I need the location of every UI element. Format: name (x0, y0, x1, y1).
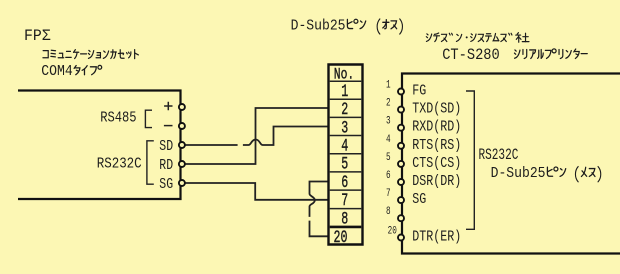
printer pin 7 circle (398, 197, 404, 203)
printer pin 8 circle (398, 215, 404, 221)
svg-text:RXD(RD): RXD(RD) (412, 119, 461, 136)
label RS232C (left) (97, 157, 142, 173)
svg-text:TXD(SD): TXD(SD) (412, 100, 461, 117)
svg-text:FG: FG (412, 82, 426, 99)
label D-Sub25pin female (D-Sub25 + katakana pi-n + (me-su)) (491, 165, 601, 182)
svg-text:4: 4 (341, 138, 348, 157)
printer signal label TXD(SD) (412, 100, 461, 117)
printer signal label RXD(RD) (412, 119, 461, 136)
svg-text:COM4: COM4 (41, 63, 72, 80)
terminal SG (circle) (179, 180, 185, 186)
label minus terminal (164, 125, 173, 127)
svg-text:5: 5 (341, 156, 348, 175)
terminal RD (circle) (179, 161, 185, 167)
svg-text:2: 2 (341, 101, 348, 120)
printer pin number 5 (386, 151, 391, 164)
printer signal label RTS(RS) (412, 137, 461, 154)
printer pin number 4 (386, 133, 391, 146)
jumper wire pin6 to pin20 (hop over SG wire, small break) (310, 182, 329, 237)
svg-text:1: 1 (386, 78, 391, 91)
printer pin 6 circle (398, 179, 404, 185)
label plus terminal (164, 102, 172, 110)
svg-text:4: 4 (386, 133, 391, 146)
printer signal label DSR(DR) (412, 173, 461, 190)
printer signal label SG (412, 191, 426, 208)
svg-text:No.: No. (334, 66, 354, 84)
device box FPSigma PLC (left, open-left rectangle) (18, 91, 181, 200)
printer signal label FG (412, 82, 426, 99)
label communication cassette (katakana ko-myu-ni-ke--syo-n-ka-se-t-to) (43, 50, 138, 59)
printer pin 4 circle (398, 143, 404, 149)
printer pin 20 circle (398, 235, 404, 241)
label D-Sub25pin male header (D-Sub25 + katakana pi-n + (o-su)) (291, 18, 403, 35)
svg-text:3: 3 (341, 120, 348, 139)
table pin number 4 (341, 138, 348, 157)
label RD (159, 157, 173, 174)
svg-text:7: 7 (341, 192, 348, 211)
svg-text:CTS(CS): CTS(CS) (412, 155, 461, 172)
label SG (159, 176, 173, 193)
table pin number 20 (334, 229, 348, 248)
wire SG to pin7 (185, 183, 328, 200)
svg-text:20: 20 (388, 224, 397, 237)
printer pin number 2 (386, 96, 391, 109)
printer pin number 7 (386, 187, 391, 200)
svg-text:DTR(ER): DTR(ER) (412, 228, 461, 245)
svg-text:SG: SG (412, 191, 426, 208)
svg-text:DSR(DR): DSR(DR) (412, 173, 461, 190)
label COM4 type (COM4 + katakana ta-i-pu) (41, 63, 101, 80)
table pin number 1 (341, 83, 348, 102)
label RS232C (right) (479, 147, 519, 164)
bracket for RS232C terminals (147, 141, 154, 184)
table pin number 7 (341, 192, 348, 211)
printer pin 1 circle (398, 89, 404, 95)
svg-text:FPΣ: FPΣ (24, 27, 51, 46)
svg-text:D-Sub25: D-Sub25 (491, 165, 546, 182)
svg-text:5: 5 (386, 151, 391, 164)
svg-text:20: 20 (334, 229, 348, 248)
svg-text:D-Sub25: D-Sub25 (291, 18, 346, 35)
svg-text:RTS(RS): RTS(RS) (412, 137, 461, 154)
printer box (right, cut off at right edge) (402, 74, 620, 254)
table pin number 3 (341, 120, 348, 139)
svg-text:8: 8 (341, 210, 348, 229)
svg-text:RS232C: RS232C (97, 157, 142, 173)
printer pin number 6 (386, 169, 391, 182)
table pin number 8 (341, 210, 348, 229)
printer pin number 8 (386, 205, 391, 218)
printer signal label DTR(ER) (412, 228, 461, 245)
wire RD to pin2: up-and-over (185, 108, 328, 164)
table pin number 5 (341, 156, 348, 175)
svg-text:CT-S280: CT-S280 (442, 47, 500, 64)
printer signal label CTS(CS) (412, 155, 461, 172)
table pin number 6 (341, 174, 348, 193)
svg-text:SD: SD (159, 138, 173, 155)
printer pin 3 circle (398, 125, 404, 131)
svg-text:6: 6 (386, 169, 391, 182)
svg-text:RS485: RS485 (100, 110, 136, 126)
bracket for RS485 terminals (145, 110, 152, 127)
svg-text:2: 2 (386, 96, 391, 109)
terminal SD (circle) (179, 142, 185, 148)
table header No. (334, 66, 354, 84)
svg-text:RD: RD (159, 157, 173, 174)
svg-text:6: 6 (341, 174, 348, 193)
connector pin table (D-Sub25 male) (329, 65, 363, 245)
svg-text:1: 1 (341, 83, 348, 102)
svg-text:3: 3 (386, 114, 391, 127)
wire SD to pin3 (with break and hop over RD wire) (185, 127, 328, 146)
printer pin number 1 (386, 78, 391, 91)
terminal - (circle) (179, 123, 185, 129)
terminal + (circle) (179, 104, 185, 110)
bracket for printer RS232C pins (466, 91, 474, 229)
printer pin 2 circle (398, 107, 404, 113)
printer pin 5 circle (398, 161, 404, 167)
printer pin number 3 (386, 114, 391, 127)
printer model CT-S280 serial printer (katakana si-ri-a-ru-pu-ri-n-ta-) (442, 47, 587, 64)
svg-text:7: 7 (386, 187, 391, 200)
printer pin number 20 (388, 224, 397, 237)
svg-text:8: 8 (386, 205, 391, 218)
label SD (159, 138, 173, 155)
label RS485 (100, 110, 136, 126)
table pin number 2 (341, 101, 348, 120)
svg-text:SG: SG (159, 176, 173, 193)
label FP Sigma (24, 27, 51, 46)
printer maker label (katakana si-ti-zu-n dot si-su-te-mu-zu + kanji sha) (426, 33, 529, 43)
svg-text:RS232C: RS232C (479, 147, 519, 164)
